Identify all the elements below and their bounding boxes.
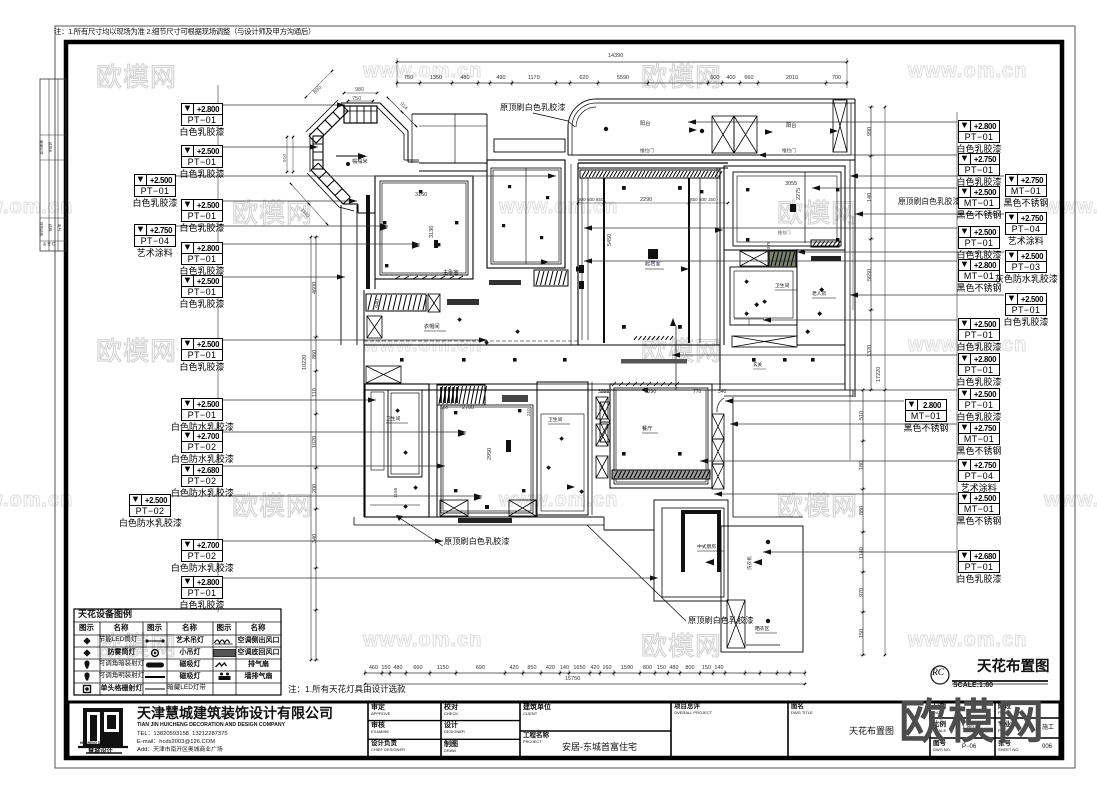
left wall cavity below octagon xyxy=(340,205,342,345)
cloakroom xyxy=(364,290,520,517)
right vertical dims upper xyxy=(870,107,872,390)
callout +2.500 MT−01 黑色不锈钢 xyxy=(958,492,1000,515)
callout +2.750 PT−04 艺术涂料 xyxy=(1005,212,1047,235)
callout +2.800 MT−01 黑色不锈钢 xyxy=(958,259,1000,282)
callout +2.750 PT−01 白色乳胶漆 xyxy=(958,153,1000,176)
living room xyxy=(577,163,729,390)
callout +2.800 PT−01 白色乳胶漆 xyxy=(958,353,1000,376)
company logo xyxy=(78,708,128,753)
callout +2.800 PT−01 白色乳胶漆 xyxy=(958,120,1000,143)
callout +2.680 PT−01 白色乳胶漆 xyxy=(958,550,1000,573)
callout +2.500 PT−01 白色乳胶漆 xyxy=(958,388,1000,411)
callout +2.500 PT−01 白色乳胶漆 xyxy=(134,174,176,197)
callout +2.750 PT−04 艺术涂料 xyxy=(958,459,1000,482)
re-paint note bottom right xyxy=(587,525,686,621)
watermark www.om.cn xyxy=(908,629,1027,652)
RB leader elbows xyxy=(849,178,851,460)
left vertical dims xyxy=(315,237,317,660)
callout +2.680 PT−02 白色防水乳胶漆 xyxy=(181,464,223,487)
watermark www.om.cn xyxy=(363,334,482,357)
wall from octagon to entry xyxy=(419,162,487,164)
watermark 欧模网 xyxy=(641,331,722,368)
watermark 欧模网 xyxy=(232,193,313,230)
watermark 欧模网 xyxy=(96,331,177,368)
closet strip above master bedroom xyxy=(412,113,487,115)
top dimension row xyxy=(397,82,847,84)
chinese kitchen xyxy=(604,500,728,601)
watermark www.om.cn xyxy=(499,196,618,219)
watermark www.om.cn xyxy=(1044,196,1097,219)
elder room right xyxy=(754,166,845,390)
watermark www.om.cn xyxy=(908,60,1027,83)
callout +2.500 PT−01 白色乳胶漆 xyxy=(1005,293,1047,316)
octagon bay window xyxy=(286,70,419,225)
callout +2.500 PT−01 白色乳胶漆 xyxy=(181,145,223,168)
callout +2.500 PT−03 灰色防水乳胶漆 xyxy=(1005,250,1047,273)
callout +2.500 PT−01 白色乳胶漆 xyxy=(181,338,223,361)
callout +2.500 PT−02 白色防水乳胶漆 xyxy=(129,494,171,517)
watermark 欧模网 xyxy=(641,626,722,663)
callout +2.750 MT−01 黑色不锈钢 xyxy=(958,422,1000,445)
callout +2.800 PT−01 白色乳胶漆 xyxy=(181,103,223,126)
watermark 欧模网 xyxy=(96,626,177,663)
misc arrowheads xyxy=(689,127,697,133)
bathroom lower middle-right xyxy=(537,382,608,515)
watermark www.om.cn xyxy=(1044,489,1097,512)
callout +2.700 PT−02 白色防水乳胶漆 xyxy=(181,539,223,562)
watermark www.om.cn xyxy=(499,489,618,512)
watermark www.om.cn xyxy=(908,334,1027,357)
callout +2.500 PT−01 白色防水乳胶漆 xyxy=(181,398,223,421)
callout 2.800 MT−01 黑色不锈钢 xyxy=(905,399,947,422)
callout +2.800 PT−01 白色乳胶漆 xyxy=(181,242,223,265)
hatch wardrobe below entry xyxy=(534,270,568,286)
callout +2.750 MT−01 黑色不锈钢 xyxy=(1005,174,1047,197)
callout +2.800 PT−01 白色乳胶漆 xyxy=(181,576,223,599)
master bedroom xyxy=(366,176,473,289)
callout +2.500 PT−01 白色乳胶漆 xyxy=(958,226,1000,249)
entry hall (玄关) xyxy=(487,113,575,345)
watermark www.om.cn xyxy=(0,489,73,512)
bottom outline steps xyxy=(364,516,604,518)
bathroom top right xyxy=(730,267,797,325)
watermark 欧模网 xyxy=(232,486,313,523)
watermark 欧模网 xyxy=(641,57,722,94)
big watermark 欧模网 xyxy=(899,683,1046,752)
bottom dimension rows xyxy=(365,672,805,674)
watermark 欧模网 xyxy=(96,57,177,94)
left register strip xyxy=(40,79,66,251)
callout +2.750 PT−04 艺术涂料 xyxy=(134,224,176,247)
callout +2.500 PT−01 白色乳胶漆 xyxy=(958,318,1000,341)
watermark www.om.cn xyxy=(363,629,482,652)
callout +2.500 PT−01 白色乳胶漆 xyxy=(181,199,223,222)
right vertical dims lower xyxy=(862,390,864,655)
middle bedroom xyxy=(437,384,537,523)
bathroom lower left xyxy=(365,366,429,517)
watermark 欧模网 xyxy=(777,486,858,523)
watermark www.om.cn xyxy=(0,196,73,219)
watermark 欧模网 xyxy=(777,193,858,230)
corridor xyxy=(364,336,853,397)
right top bedroom block xyxy=(700,166,845,345)
balcony xyxy=(568,99,855,397)
callout +2.500 MT−01 黑色不锈钢 xyxy=(958,186,1000,209)
drying area xyxy=(717,397,803,652)
watermark www.om.cn xyxy=(363,60,482,83)
re-paint note bottom center xyxy=(398,517,443,546)
callout +2.500 PT−01 白色乳胶漆 xyxy=(181,275,223,298)
dining room xyxy=(600,384,724,489)
callout +2.700 PT−02 白色防水乳胶漆 xyxy=(181,430,223,453)
callout spine lines xyxy=(217,85,219,612)
